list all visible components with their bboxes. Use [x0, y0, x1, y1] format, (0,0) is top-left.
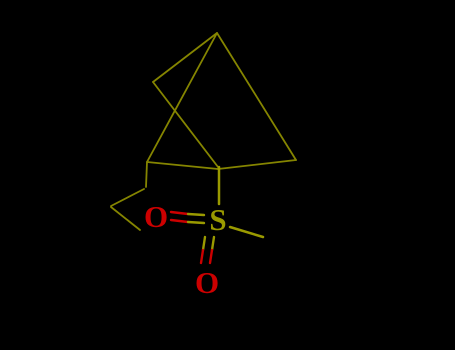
- svg-text:S: S: [209, 202, 226, 237]
- svg-text:O: O: [144, 199, 168, 234]
- svg-text:O: O: [195, 265, 219, 300]
